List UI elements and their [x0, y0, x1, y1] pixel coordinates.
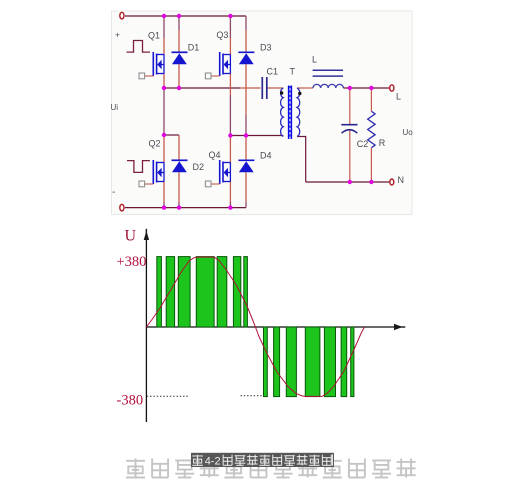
wire: secondary bottom down to output rail — [297, 137, 306, 183]
capacitor C1 — [262, 77, 267, 99]
wire: Q2 source leg — [163, 182, 165, 208]
svg-text:D2: D2 — [193, 162, 205, 172]
wire: Q4 source leg — [229, 182, 231, 208]
wire: R top leg — [370, 88, 372, 111]
capacitor C2 — [341, 125, 357, 134]
wire: Q1 drain leg — [163, 16, 165, 55]
terminal N output — [390, 179, 394, 185]
PWM pulse bars negative half — [264, 327, 354, 397]
svg-text:N: N — [398, 175, 405, 185]
chart X axis — [146, 326, 395, 328]
caption highlight box — [191, 453, 334, 467]
transistor Q3 — [205, 52, 230, 79]
PWM pulse bars positive half — [157, 257, 248, 327]
wire: D3 cathode leg from rail corner — [245, 16, 247, 52]
svg-text:D3: D3 — [260, 43, 272, 53]
node A rail (to C1) — [164, 87, 240, 89]
wire: D4 cathode leg — [245, 136, 247, 161]
X axis arrowhead — [394, 324, 403, 330]
wire: C1 to transformer primary top — [266, 87, 283, 89]
wire: inductor to L terminal — [343, 87, 391, 89]
svg-text:+: + — [115, 30, 120, 40]
svg-text:D4: D4 — [260, 151, 272, 161]
wire: node A down to Q2 — [163, 88, 165, 163]
svg-text:Q2: Q2 — [149, 139, 161, 149]
wire: bottom -rail — [125, 207, 246, 209]
sine reference waveform — [146, 257, 364, 396]
svg-text:C2: C2 — [357, 139, 369, 149]
svg-text:U: U — [125, 228, 137, 245]
wire: R bottom leg — [370, 148, 372, 182]
wire: D1 anode leg — [178, 64, 180, 88]
negative gate pulse symbol — [127, 161, 150, 173]
svg-text:T: T — [290, 67, 296, 77]
terminal - input bottom — [120, 204, 124, 211]
svg-text:R: R — [379, 138, 386, 148]
transformer T — [280, 86, 302, 140]
wire: D4 anode leg to bottom rail corner — [245, 172, 247, 207]
diode D2 — [172, 160, 188, 172]
resistor R — [368, 111, 375, 147]
svg-text:D1: D1 — [188, 43, 200, 53]
svg-text:C1: C1 — [267, 67, 279, 77]
svg-text:Ui: Ui — [111, 103, 119, 112]
wire: D2 anode leg — [178, 172, 180, 207]
positive gate pulse symbol — [127, 41, 150, 53]
wire: bottom output rail to N terminal — [306, 181, 392, 183]
svg-text:+380: +380 — [117, 254, 147, 270]
transistor Q4 — [205, 160, 230, 187]
svg-text:Q1: Q1 — [148, 31, 160, 41]
dotted -380 level segment 1 — [147, 395, 188, 397]
terminal + input top — [120, 12, 124, 19]
diode D4 — [238, 160, 254, 172]
svg-text:Uo: Uo — [403, 128, 414, 137]
watermark 山东安博信息科技有限公司 (simulated glyphs) — [126, 459, 416, 478]
dotted -380 level segment 2 — [241, 395, 264, 397]
diode D3 — [238, 52, 254, 64]
diode D1 — [172, 52, 188, 64]
wire: Q1 source to node A — [163, 74, 165, 89]
node A stub to D2 — [164, 134, 179, 136]
wire: secondary top to inductor — [297, 87, 313, 89]
caption text 图4-2全桥逆变原理示意图 (simulated glyphs) — [192, 454, 332, 467]
transistor Q1 — [139, 52, 164, 79]
node B rail (to transformer primary bottom) — [230, 135, 283, 137]
svg-text:Q3: Q3 — [216, 30, 228, 40]
wire: C2 top leg — [349, 88, 351, 125]
svg-text:-380: -380 — [117, 393, 144, 409]
wire: Q4 drain leg — [229, 136, 231, 163]
Y axis arrowhead — [144, 231, 149, 240]
transistor Q2 — [139, 160, 164, 187]
wire: D3 anode leg — [245, 64, 247, 135]
wire: top +rail — [125, 15, 246, 17]
terminal L output — [390, 85, 394, 91]
svg-text:Q4: Q4 — [209, 150, 221, 160]
inductor L — [313, 70, 344, 88]
wire: C2 bottom leg — [349, 129, 351, 182]
wire: Q3 drain leg — [229, 16, 231, 55]
junction dots — [162, 14, 374, 210]
chart Y axis — [145, 230, 147, 423]
svg-text:4-2: 4-2 — [205, 456, 221, 468]
svg-text:-: - — [112, 187, 115, 198]
wire: Q3 source long leg crossing node A rail — [229, 74, 231, 136]
wire: D2 cathode leg — [178, 135, 180, 160]
schematic panel background — [112, 11, 413, 215]
wire: D1 cathode leg — [178, 16, 180, 52]
svg-text:L: L — [396, 92, 401, 102]
svg-text:L: L — [312, 55, 317, 65]
